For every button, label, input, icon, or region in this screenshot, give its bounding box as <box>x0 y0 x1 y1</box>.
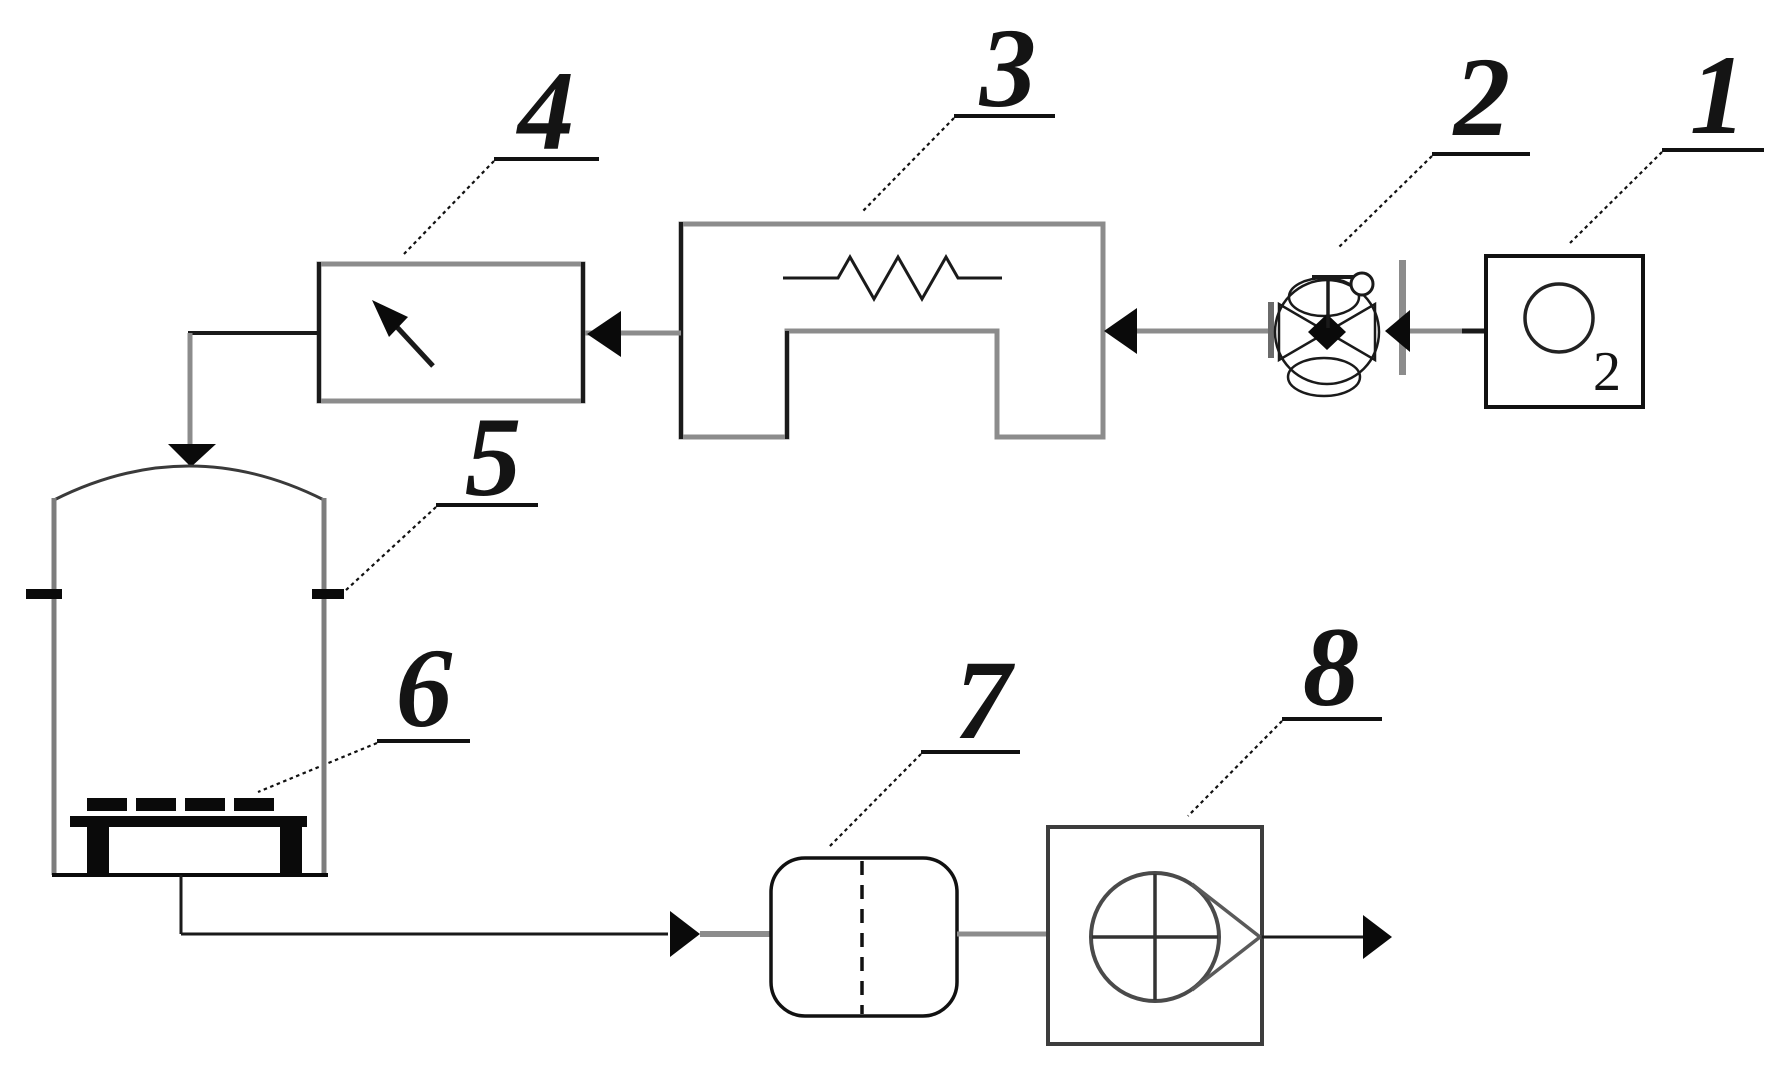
valve 2 <box>1268 260 1410 396</box>
furnace 3 body <box>681 222 1103 439</box>
label 8 <box>1188 605 1382 816</box>
arrow into meter 4 <box>587 311 621 357</box>
support table inside reactor <box>70 816 307 875</box>
svg-text:5: 5 <box>465 395 522 520</box>
heater resistor inside furnace <box>783 257 1002 299</box>
wire meter 4 to reactor <box>168 333 319 467</box>
label 3 <box>862 6 1055 212</box>
label 2 <box>1337 35 1530 249</box>
arrow into furnace 3 <box>1104 308 1137 354</box>
wire O2 box to valve <box>1406 329 1486 334</box>
label 7 <box>828 638 1020 848</box>
svg-text:4: 4 <box>516 49 575 174</box>
wire trap to pump <box>957 932 1048 937</box>
svg-text:6: 6 <box>396 626 453 751</box>
trap 7 rounded box <box>771 858 957 1016</box>
wire furnace to meter 4 <box>583 331 681 336</box>
svg-text:2: 2 <box>1593 341 1621 403</box>
pump 8 <box>1048 827 1262 1044</box>
label 6 <box>258 626 470 792</box>
flow meter 4 box <box>319 262 583 403</box>
svg-text:2: 2 <box>1452 35 1511 160</box>
svg-text:7: 7 <box>955 638 1016 763</box>
outlet arrow from pump <box>1262 915 1392 959</box>
reactor vessel 5 <box>26 466 344 875</box>
label 4 <box>404 49 599 254</box>
label 5 <box>345 395 538 591</box>
substrate dashes 6 <box>87 798 274 811</box>
wire furnace to valve <box>1137 329 1272 334</box>
outlet wire from reactor <box>181 875 771 957</box>
svg-text:1: 1 <box>1690 33 1747 158</box>
svg-text:8: 8 <box>1303 605 1360 730</box>
svg-text:3: 3 <box>979 6 1037 131</box>
oxygen source box 1 <box>1486 256 1643 407</box>
label 1 <box>1570 33 1764 243</box>
